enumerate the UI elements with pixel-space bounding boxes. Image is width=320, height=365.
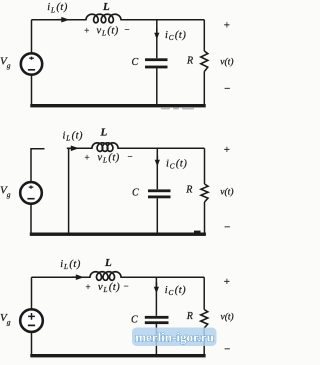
- svg-text:merlin-igor.ru: merlin-igor.ru: [135, 330, 214, 345]
- svg-text:−: −: [123, 281, 128, 291]
- svg-text:vL(t): vL(t): [98, 153, 120, 165]
- svg-text:v(t): v(t): [220, 187, 233, 198]
- svg-text:iC(t): iC(t): [166, 158, 187, 170]
- svg-text:R: R: [186, 56, 193, 67]
- svg-text:iL(t): iL(t): [63, 131, 84, 143]
- svg-text:+: +: [84, 153, 89, 163]
- svg-text:−: −: [224, 344, 230, 356]
- svg-text:iC(t): iC(t): [165, 30, 186, 42]
- svg-text:R: R: [186, 311, 193, 322]
- svg-text:iC(t): iC(t): [165, 285, 186, 297]
- svg-text:C: C: [132, 57, 139, 68]
- svg-text:L: L: [104, 257, 112, 269]
- svg-text:iL(t): iL(t): [47, 2, 68, 14]
- svg-text:L: L: [100, 127, 108, 139]
- svg-text:−: −: [124, 24, 129, 34]
- svg-text:−: −: [127, 151, 132, 161]
- svg-text:+: +: [224, 144, 230, 156]
- svg-text:C: C: [131, 315, 138, 326]
- svg-text:v(t): v(t): [220, 57, 233, 68]
- svg-text:vL(t): vL(t): [98, 282, 120, 294]
- svg-text:+: +: [224, 276, 230, 288]
- svg-text:+: +: [85, 282, 90, 292]
- svg-text:vL(t): vL(t): [97, 26, 119, 38]
- svg-text:+: +: [84, 26, 89, 36]
- svg-text:L: L: [102, 1, 110, 13]
- svg-text:R: R: [185, 185, 192, 196]
- svg-text:C: C: [132, 188, 139, 199]
- svg-text:−: −: [224, 222, 230, 234]
- svg-text:v(t): v(t): [221, 312, 234, 323]
- svg-text:−: −: [224, 83, 230, 95]
- svg-text:+: +: [224, 20, 230, 32]
- svg-text:iL(t): iL(t): [60, 259, 81, 271]
